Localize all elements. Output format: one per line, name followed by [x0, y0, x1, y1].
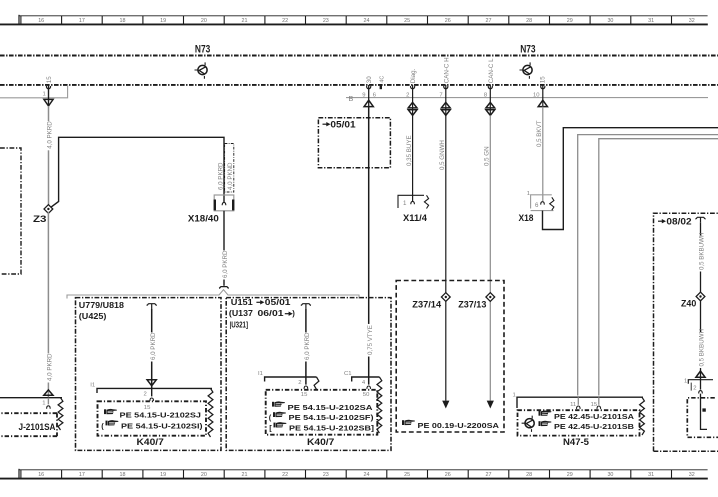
node Z3 label: [33, 214, 47, 225]
svg-text:X18: X18: [519, 213, 535, 224]
hand icon PE 00.19: [402, 420, 415, 425]
svg-text:25: 25: [404, 18, 410, 24]
terminal label CAN-C L (rotated): [488, 58, 495, 83]
node Z37/14 label: [412, 299, 441, 310]
svg-text:6: 6: [535, 202, 539, 209]
reference box ->08/02: [654, 213, 718, 451]
component name K40/7 (box2): [307, 436, 334, 447]
connector X18 box: [531, 195, 554, 211]
svg-text:4,0 PKRD: 4,0 PKRD: [47, 353, 54, 381]
bottom ruler scale 16-32: [0, 469, 708, 479]
svg-text:18: 18: [120, 472, 126, 478]
svg-text:4C: 4C: [379, 76, 385, 83]
label ->05/01: [323, 119, 356, 129]
terminal label 15 (rotated, left): [46, 76, 53, 83]
svg-text:18: 18: [120, 18, 126, 24]
svg-text:Z40: Z40: [681, 299, 696, 310]
wire 0,75 VTYE upper segment (through 05/01 box): [368, 107, 370, 298]
svg-text:23: 23: [323, 472, 329, 478]
PE text box2 line1: [288, 403, 374, 412]
wire 0,75 VTYE inside box2: [368, 298, 370, 385]
svg-text:1: 1: [43, 92, 46, 98]
wire label 4,0 PKRD (upper): [45, 121, 54, 151]
pin stub Diag: [412, 85, 414, 116]
pin number 8: [484, 92, 488, 98]
svg-text:06/01: 06/01: [258, 309, 285, 318]
connector X18/40 symbol: [214, 195, 234, 211]
svg-text:CAN-C L: CAN-C L: [488, 58, 495, 83]
pin number 7: [439, 92, 442, 98]
wire 0,5 BKVT: [542, 107, 544, 202]
svg-text:10: 10: [533, 92, 540, 98]
terminal label CAN-C H (rotated): [443, 57, 450, 83]
wire label 0,75 VTYE: [365, 324, 374, 357]
svg-text:2: 2: [406, 92, 409, 98]
K40/7 box1 label (U425): [79, 312, 107, 321]
connector X11/4: [398, 195, 429, 208]
pin line N47-5: [517, 397, 643, 408]
svg-text:CAN-C H: CAN-C H: [443, 57, 450, 83]
svg-text:(U137: (U137: [229, 309, 253, 318]
socket label I1 (box2): [258, 371, 263, 377]
connector X18 label: [519, 213, 535, 224]
svg-text:K40/7: K40/7: [307, 436, 334, 447]
T-clip box2: [301, 304, 311, 309]
svg-text:6,0 PKRD: 6,0 PKRD: [217, 162, 224, 190]
bus clip at terminal 15 (left): [46, 86, 50, 89]
connector X11/4 label: [403, 213, 428, 224]
pin line I1 box2: [265, 377, 317, 382]
wire 6,0 PKRD inside box2: [305, 309, 307, 385]
svg-text:PE 42.45-U-2101SB: PE 42.45-U-2101SB: [554, 422, 635, 431]
hand icon box2 line1: [272, 401, 285, 406]
wire 0,5 BKBUWH lower: [700, 300, 702, 380]
svg-text:31: 31: [648, 472, 654, 478]
svg-text:20: 20: [201, 472, 207, 478]
svg-text:05/01: 05/01: [265, 298, 292, 307]
svg-text:29: 29: [567, 472, 573, 478]
svg-text:27: 27: [485, 18, 491, 24]
svg-text:N47-5: N47-5: [563, 436, 589, 447]
pin 15 N47-5: [591, 402, 598, 408]
component K40/7 box 1 border: [76, 298, 222, 451]
svg-text:16: 16: [38, 472, 44, 478]
svg-text:1: 1: [684, 378, 687, 384]
svg-text:PE 54.15-U-2102SA: PE 54.15-U-2102SA: [288, 403, 374, 412]
svg-text:22: 22: [282, 472, 288, 478]
label ->08/02: [658, 216, 692, 226]
svg-text:PE 42.45-U-2101SA: PE 42.45-U-2101SA: [554, 412, 635, 421]
svg-text:26: 26: [445, 18, 451, 24]
arrow end GNWH (filled): [442, 401, 449, 409]
svg-text:15: 15: [301, 392, 308, 398]
bus line N73 lower (CAN): [0, 84, 718, 86]
wire from X18 routing right-up: [543, 128, 718, 230]
wire branch Z3 to X18/40: [51, 137, 224, 207]
node Z37/13 label: [458, 299, 486, 310]
pin clip (box2 pin4): [367, 386, 371, 389]
svg-text:23: 23: [323, 18, 329, 24]
pin line box1: [97, 388, 212, 393]
svg-text:0,75 VTYE: 0,75 VTYE: [367, 325, 374, 355]
svg-text:0,5 GN: 0,5 GN: [484, 146, 491, 166]
svg-text:Z37/14: Z37/14: [412, 299, 441, 310]
socket label I1 (box1): [90, 383, 95, 389]
wire 0,5 GN: [489, 115, 491, 401]
svg-text:25: 25: [404, 472, 410, 478]
svg-text:PE 00.19-U-2200SA: PE 00.19-U-2200SA: [418, 421, 500, 430]
svg-text:21: 21: [242, 472, 248, 478]
wire label 6,0 PKRD (above X18/40): [217, 162, 224, 190]
svg-text:1: 1: [42, 400, 45, 406]
svg-text:Z37/13: Z37/13: [458, 299, 486, 310]
PE text 00.19-U-2200SA: [418, 421, 500, 430]
node Z40 label: [681, 299, 696, 310]
pin number 10: [533, 92, 540, 98]
pin 11 stub clip: [577, 397, 581, 409]
svg-text:32: 32: [689, 472, 695, 478]
wire gray corner 1 (to N47-5 pin 11): [578, 135, 718, 396]
T-clip box1: [147, 304, 157, 309]
pin 1 label 08/02: [684, 378, 687, 384]
svg-text:2: 2: [298, 380, 301, 386]
svg-text:0,5 BKBUWH: 0,5 BKBUWH: [699, 329, 706, 366]
svg-text:K40/7: K40/7: [137, 436, 164, 447]
T-clip 08/02: [695, 217, 705, 222]
wire label 0,5 BKBUWH (lower): [697, 329, 706, 368]
pin line 08/02: [688, 380, 713, 384]
arrow up bottom-left: [44, 390, 53, 395]
wire 6,0 PKRD inside box1: [151, 309, 153, 388]
wire label 6,0 PKRD (below X18/40): [220, 250, 229, 280]
node Z37/13 splice: [486, 293, 495, 302]
svg-text:22: 22: [282, 18, 288, 24]
svg-text:50: 50: [363, 392, 370, 398]
reference box ->05/01: [318, 118, 390, 168]
wire 4,0 PKRD upper segment: [48, 106, 50, 206]
arrow up pin 10: [538, 100, 547, 106]
svg-text:U779/U818: U779/U818: [79, 301, 125, 310]
harness brace line (gray): [67, 290, 359, 299]
stub pin 4C: [379, 76, 385, 90]
svg-text:Diag.: Diag.: [410, 68, 417, 83]
hand icon N47-5 line2: [539, 421, 552, 426]
pin stub pin 10: [542, 85, 544, 107]
svg-text:2: 2: [693, 385, 696, 391]
svg-text:): ): [292, 309, 295, 318]
arrow down at left pin: [44, 85, 53, 106]
pin stub clip bottom-left: [47, 398, 51, 409]
svg-text:B: B: [349, 94, 354, 103]
svg-text:I1: I1: [258, 371, 263, 377]
arrow down box1: [147, 380, 156, 386]
pin 1 label bottom-left: [42, 400, 45, 406]
connector bracket B (gray line): [346, 97, 708, 99]
hand icon box1 line2: [101, 420, 118, 430]
svg-text:16: 16: [38, 18, 44, 24]
component name K40/7 (box1): [137, 436, 164, 447]
pin line bottom-left: [0, 397, 62, 399]
svg-text:0,5 BKVT: 0,5 BKVT: [536, 120, 543, 147]
svg-text:0,5 GNWH: 0,5 GNWH: [439, 140, 446, 170]
svg-text:PE 54.15-U-2102SF): PE 54.15-U-2102SF): [289, 413, 375, 422]
svg-text:30: 30: [607, 472, 613, 478]
svg-text:27: 27: [485, 472, 491, 478]
pin number 1 (left connector): [43, 92, 46, 98]
wire label 0,5 BKBUWH (upper): [697, 233, 706, 272]
inner component box2 (dashed): [266, 390, 378, 435]
PE text N47-5 line1: [554, 412, 635, 421]
wire label 6,0 PKRD (box2): [302, 332, 311, 362]
N47-5 circle icon: [522, 416, 535, 432]
pin clip 08/02: [699, 380, 703, 394]
svg-text:6,0 PKRD: 6,0 PKRD: [150, 332, 157, 360]
pin 1 label X18: [527, 191, 530, 197]
hand icon N47-5 line1: [539, 410, 552, 415]
svg-text:17: 17: [79, 472, 85, 478]
svg-text:1: 1: [527, 191, 530, 197]
PE text bottom-left U-2101SA: [19, 422, 57, 432]
PE text N47-5 line2: [554, 422, 635, 431]
PE text box1 line2: [121, 422, 203, 431]
resistor zigzag bottom-left: [58, 398, 63, 430]
arrow up pin 9/6: [364, 100, 373, 106]
wire label 0,5 GNWH: [439, 140, 446, 170]
svg-text:6,0 PKRD: 6,0 PKRD: [222, 250, 229, 278]
svg-text:Z3: Z3: [33, 214, 47, 225]
component box bottom-left (dash-dot): [0, 413, 57, 436]
svg-text:PE 54.15-U-2102SI): PE 54.15-U-2102SI): [121, 422, 203, 431]
pin 15 (box2): [301, 392, 308, 398]
terminal label 15 (rotated, pin10): [540, 76, 547, 83]
svg-text:7: 7: [439, 92, 442, 98]
svg-text:08/02: 08/02: [666, 216, 691, 226]
wire 0,35 BUYE: [412, 115, 414, 201]
boxed wire label 4,0 PKND (above X18/40): [225, 144, 234, 193]
pin 50 (box2): [363, 392, 370, 398]
bus clip CAN-C H: [444, 86, 448, 89]
connector X18/40 label: [188, 213, 219, 224]
pin stub CAN-C H: [445, 85, 447, 116]
svg-text:X18/40: X18/40: [188, 213, 219, 224]
inner box 08/02 (dash-dot): [687, 398, 718, 438]
resistor zigzag box1 (right): [208, 388, 213, 437]
svg-text:17: 17: [79, 18, 85, 24]
svg-text:X11/4: X11/4: [403, 213, 428, 224]
wire label 4,0 PKRD (lower): [45, 353, 54, 383]
svg-text:1: 1: [513, 393, 516, 399]
svg-text:4,0 PKND: 4,0 PKND: [227, 162, 234, 190]
PE text box2 line2: [289, 413, 375, 422]
svg-text:1: 1: [403, 200, 407, 207]
hand icon box2 line3: [269, 422, 286, 432]
left pin bracket (gray): [0, 85, 68, 98]
pin 6 label X18: [535, 202, 539, 209]
svg-text:29: 29: [567, 18, 573, 24]
svg-text:30: 30: [607, 18, 613, 24]
svg-text:N73: N73: [520, 43, 535, 55]
pin line C1 box2: [352, 377, 380, 382]
pin 1 label X11/4: [403, 200, 407, 207]
svg-text:24: 24: [363, 18, 369, 24]
terminal label 30 (rotated): [366, 76, 373, 83]
pin 2 (box1): [144, 392, 147, 398]
pin 15 (box1): [144, 405, 151, 411]
bus line N73 upper (CAN): [0, 55, 718, 57]
wire label 6,0 PKRD (box1): [148, 332, 157, 362]
svg-text:32: 32: [689, 18, 695, 24]
plug symbol pin 2: [408, 102, 417, 115]
bus clip terminal 15 (pin10): [541, 86, 545, 89]
wire gray corner 2 (to N47-5 pin 15): [599, 139, 718, 396]
svg-text:J-2101SA: J-2101SA: [19, 422, 57, 432]
socket label C1 (box2): [344, 371, 352, 377]
svg-text:6,0 PKRD: 6,0 PKRD: [304, 332, 311, 360]
plug symbol pin 7: [441, 102, 450, 115]
svg-text:4,0 PKRD: 4,0 PKRD: [47, 121, 54, 149]
N73 bus symbol (right): [520, 62, 533, 78]
node Z3 splice diamond: [44, 205, 53, 214]
K40/7 box1 label U779/U818: [79, 301, 125, 310]
component K40/7 box 2 border: [226, 298, 391, 451]
terminal label Diag. (rotated): [410, 68, 417, 83]
top ruler scale 16-32: [0, 15, 708, 25]
resistor zigzag N47-5: [640, 397, 645, 435]
bus clip Diag: [411, 86, 415, 89]
svg-text:20: 20: [201, 18, 207, 24]
wire 0,5 GNWH: [445, 115, 447, 401]
pin 2 (box2): [298, 380, 301, 386]
wire inside 08/02 inner box: [701, 394, 708, 430]
svg-text:N73: N73: [195, 43, 210, 55]
pin 15 stub clip: [597, 397, 601, 409]
pin 1 label N47-5: [513, 393, 516, 399]
pin number 6: [373, 92, 377, 98]
pin stub CAN-C L: [489, 85, 491, 116]
pin number 2: [406, 92, 409, 98]
svg-text:U151: U151: [231, 298, 254, 307]
svg-text:15: 15: [540, 76, 547, 83]
wire label 0,5 BKVT: [536, 120, 543, 147]
svg-text:21: 21: [242, 18, 248, 24]
svg-text:19: 19: [160, 18, 166, 24]
component box N47-5 (dash-dot): [518, 410, 640, 435]
plug symbol pin 8: [486, 102, 495, 115]
component name N47-5: [563, 436, 589, 447]
svg-text:PE 54.15-U-2102SJ: PE 54.15-U-2102SJ: [120, 410, 202, 419]
pin clip (box2 pin2): [304, 386, 308, 389]
svg-text:PE 54.15-U-2102SB]: PE 54.15-U-2102SB]: [289, 424, 375, 433]
pin number 9: [362, 92, 365, 98]
svg-text:26: 26: [445, 472, 451, 478]
wire label 0,5 GN: [484, 146, 491, 166]
svg-text:11: 11: [570, 402, 576, 408]
arrow up 08/02: [696, 371, 705, 377]
svg-text:24: 24: [363, 472, 369, 478]
PE text box2 line3: [289, 424, 375, 433]
hand icon box2 line2: [269, 412, 286, 422]
pin 2 boxed label 08/02: [691, 383, 696, 392]
svg-text:28: 28: [526, 472, 532, 478]
svg-text:15: 15: [46, 76, 53, 83]
control unit N73 label (right): [520, 43, 535, 55]
arrow end GN (filled): [487, 401, 494, 409]
svg-text:31: 31: [648, 18, 654, 24]
wire 0,5 BKBUWH upper: [700, 222, 702, 293]
bus clip CAN-C L: [488, 86, 492, 89]
resistor zigzag box2 (right): [377, 377, 382, 433]
PE text box1 line1: [120, 410, 202, 419]
bus clip terminal 30: [367, 86, 371, 89]
node Z40 splice: [696, 292, 705, 301]
svg-text:0,35 BUYE: 0,35 BUYE: [406, 135, 413, 166]
svg-text:|U321]: |U321]: [230, 321, 249, 330]
svg-text:2: 2: [144, 392, 147, 398]
svg-text:30: 30: [366, 76, 373, 83]
svg-text:05/01: 05/01: [330, 119, 355, 129]
wire 6,0 PKRD below X18/40: [219, 211, 229, 288]
svg-text:(U425): (U425): [79, 312, 107, 321]
svg-text:19: 19: [160, 472, 166, 478]
svg-text:0,5 BKBUWH: 0,5 BKBUWH: [699, 233, 706, 270]
svg-text:9: 9: [362, 92, 365, 98]
resistor zigzag box2 (middle): [314, 377, 319, 389]
K40/7 box2 label U151 ->05/01: [231, 298, 292, 307]
pin stub and clip (box1): [150, 388, 154, 401]
control unit N73 label (left): [195, 43, 210, 55]
svg-text:28: 28: [526, 18, 532, 24]
hand icon box1 line1: [104, 409, 117, 414]
inner component box1 (dashed): [98, 401, 207, 435]
K40/7 box2 label [U321]: [230, 321, 249, 330]
connector letter B: [349, 94, 354, 103]
wire label 0,35 BUYE: [406, 135, 413, 166]
pin 4 (box2): [362, 380, 366, 386]
svg-text:C1: C1: [344, 371, 352, 377]
N73 bus symbol (left): [195, 62, 208, 78]
pin 11 N47-5: [570, 402, 576, 408]
wire 4,0 PKRD lower segment: [47, 212, 49, 398]
K40/7 box2 label (U137 06/01->): [229, 309, 295, 318]
left edge control unit box (dash-dot): [0, 148, 21, 274]
box Z37 (dashed): [396, 281, 504, 433]
node Z37/14 splice: [441, 293, 450, 302]
pin stub terminal 30: [368, 85, 370, 107]
svg-text:I1: I1: [90, 383, 95, 389]
